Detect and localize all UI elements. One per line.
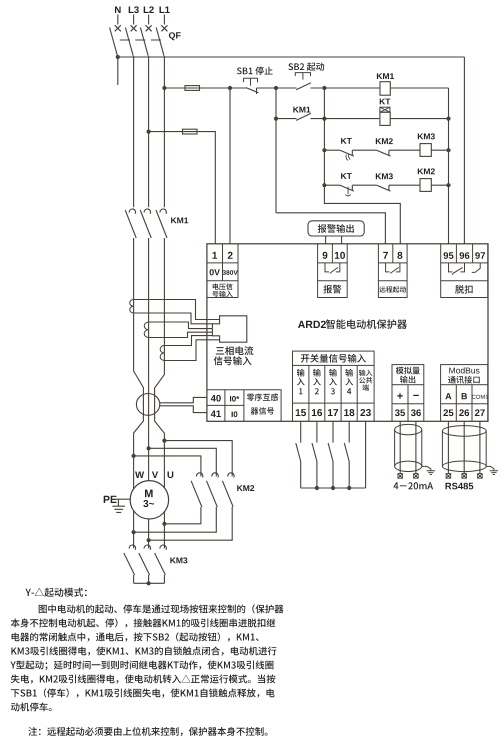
note paragraph line 2 <box>11 618 276 627</box>
contactor coil KM2 <box>420 179 431 192</box>
voltage group outline <box>207 244 238 298</box>
contactor KM3 pole 1 <box>124 545 136 575</box>
label PE <box>104 496 117 503</box>
label V <box>152 472 158 479</box>
wire input 2 <box>316 421 318 442</box>
note paragraph line 4 <box>11 647 276 656</box>
pushbutton SB1 actuator <box>244 78 258 85</box>
wire KM3 pole 2 lower <box>148 575 150 583</box>
label CT line1 <box>216 346 254 355</box>
zero-seq group dividers <box>207 390 244 422</box>
contactor KM2 pole outer <box>222 473 234 507</box>
wire RS485 A <box>447 421 449 473</box>
motor M 3-phase <box>130 481 168 519</box>
wire rung3 b <box>352 149 376 151</box>
wire phase L3 <box>133 56 135 201</box>
trip relay contact 95-96 <box>449 263 465 275</box>
label CT line2 <box>214 356 252 365</box>
label L1 <box>160 7 170 14</box>
fuse FU1 <box>185 86 200 91</box>
label 0V <box>210 269 220 275</box>
wire RS485 B <box>463 421 465 473</box>
wire input 1 <box>300 421 302 442</box>
label alarm <box>323 285 341 294</box>
label KM1 coil <box>377 73 394 79</box>
wire to KM1 aux <box>276 118 297 120</box>
label analog line1 <box>396 367 420 375</box>
label alarm output <box>318 224 354 233</box>
ground RS485 <box>490 471 498 475</box>
remote relay contact <box>386 263 400 274</box>
node A <box>274 86 278 90</box>
label 输入1 char 入 <box>297 378 305 385</box>
wire node A rail to terminal 7 <box>276 213 385 244</box>
supply stub N <box>117 15 119 25</box>
analog pin − <box>413 395 419 396</box>
label 4-20mA <box>394 482 434 489</box>
modbus pin COM <box>472 395 488 399</box>
label analog line2 <box>400 376 415 384</box>
current transformer CT3 <box>160 346 164 361</box>
switch input column 2 <box>324 365 326 421</box>
supply stub L3 <box>133 15 135 25</box>
note paragraph line 1 <box>39 604 284 613</box>
junction KM1-aux tap <box>274 117 278 121</box>
wire L2 voltage feed <box>149 132 216 244</box>
zero sequence transformer <box>136 394 159 416</box>
breaker QF pole L1 <box>156 28 164 56</box>
trip pin 96 <box>460 252 470 259</box>
label 380V <box>223 270 238 275</box>
junction L1 tap <box>162 86 166 90</box>
label 输入3 char 3 <box>331 388 335 394</box>
label 输入2 char 输 <box>313 369 321 377</box>
wire alarm to terminal 10 <box>341 236 343 244</box>
wire rung3 c <box>389 149 420 151</box>
CT3 wire b <box>164 340 219 361</box>
wire node A down <box>275 88 277 213</box>
junction rung3 right <box>446 148 450 152</box>
label RS485 <box>446 483 474 490</box>
wire KM2 inner loop <box>134 456 201 524</box>
switch input pin 16 <box>312 409 322 416</box>
analog pin + <box>397 393 403 399</box>
contact KM3 NC <box>377 185 391 191</box>
ground RS485 lead <box>486 466 494 470</box>
ferrite 4-20mA bottom <box>395 461 422 471</box>
wire phase L1 <box>163 56 165 201</box>
label common line1 <box>359 370 372 377</box>
junction terminal-2 tap <box>228 86 232 90</box>
pin 41 <box>211 411 221 418</box>
wire KM3 pole 3 lower <box>163 575 165 583</box>
wire right rail <box>448 88 450 244</box>
wire neutral bus <box>118 56 465 58</box>
contactor coil KM3 <box>420 144 431 157</box>
pin I0* <box>230 396 239 402</box>
label voltage signal line1 <box>213 283 233 290</box>
label common line2 <box>359 377 372 383</box>
pushbutton SB1 contact <box>246 88 258 94</box>
ferrite 4-20mA sides <box>395 430 422 467</box>
wire PE <box>115 498 130 500</box>
wire analog − <box>415 421 417 473</box>
fuse FU2 <box>183 129 198 134</box>
switch input contact 3 <box>328 443 333 488</box>
label 输入1 char 输 <box>297 369 305 377</box>
label W <box>135 472 144 479</box>
lug RS485 B <box>462 474 467 479</box>
analog output header box <box>392 365 424 385</box>
CT1 wire a <box>134 300 220 320</box>
voltage pin 1 <box>213 252 218 259</box>
breaker QF pole L2 <box>140 28 148 56</box>
label 输入2 char 入 <box>313 378 321 385</box>
wire rung4 a <box>324 184 340 186</box>
ground PE <box>112 499 125 512</box>
label 输入2 char 2 <box>315 388 319 394</box>
note heading <box>26 588 87 597</box>
switch input contact 2 <box>312 443 317 488</box>
alarm pin 9 <box>323 252 328 259</box>
wire KT coil to right rail <box>390 118 448 120</box>
lug analog − <box>414 474 419 479</box>
label voltage signal line2 <box>212 291 232 298</box>
junction W-KM2 <box>132 454 136 458</box>
wire alarm to terminal 9 <box>325 236 327 244</box>
switch input row line <box>293 402 375 404</box>
remote group divider <box>378 244 407 281</box>
label comm interface <box>448 376 480 384</box>
label protector title <box>326 319 407 329</box>
trip pin 95 <box>444 252 454 259</box>
contactor KM3 pole 3 <box>155 545 167 575</box>
zero-seq group outline <box>207 390 281 422</box>
label KM1 aux <box>293 107 310 113</box>
wire star bus <box>134 582 165 584</box>
contactor KM3 pole 2 <box>139 545 151 575</box>
ground 4-20mA <box>427 471 435 475</box>
label 输入4 char 输 <box>345 369 353 377</box>
label KM3 <box>170 557 187 563</box>
note paragraph line 3 <box>12 632 259 641</box>
label ModBus <box>449 367 479 373</box>
switch input contact 1 <box>296 443 301 488</box>
label remote start <box>379 286 406 292</box>
current transformer CT1 <box>130 300 134 314</box>
contactor KM2 pole inner <box>191 473 203 507</box>
junction rung3 left <box>322 148 326 152</box>
switch input pin 15 <box>296 409 306 416</box>
label SB1 stop <box>237 67 273 75</box>
junction U-KM2 <box>162 439 166 443</box>
voltage group divider <box>222 244 224 281</box>
wire U phase <box>155 238 165 548</box>
pin I0 <box>232 411 238 417</box>
ferrite 4-20mA top <box>395 424 422 434</box>
junction KT rung <box>322 117 326 121</box>
junction U-delta <box>162 522 166 526</box>
switch input column 3 <box>340 365 342 421</box>
wire to terminal 2 <box>229 88 231 244</box>
label 输入3 char 入 <box>329 378 337 385</box>
junction rung4 right <box>446 183 450 187</box>
remote pin 7 <box>383 252 388 259</box>
wire KM3 pole 1 lower <box>133 575 135 583</box>
switch input pin 23 <box>360 409 371 416</box>
ferrite RS485 sides <box>442 431 486 466</box>
note paragraph line 8 <box>11 703 52 712</box>
label KT coil <box>380 99 391 105</box>
wire SB1 to node A <box>257 87 297 89</box>
label L3 <box>129 6 139 13</box>
label KT rung4 <box>341 173 352 179</box>
label motor 3ph <box>143 500 154 507</box>
voltage pin 2 <box>228 252 233 259</box>
junction V-KM2 <box>147 446 151 450</box>
timer coil KT upper box <box>380 107 390 112</box>
contact KT delayed NO <box>340 185 354 191</box>
CT connector plug <box>212 316 246 342</box>
wire KM2 middle loop <box>134 448 217 532</box>
label ARD2 <box>298 321 326 328</box>
wire KM1 coil to right rail <box>390 87 448 89</box>
protector ARD2 outline <box>207 244 488 421</box>
supply stub L2 <box>148 15 150 25</box>
pin 40 <box>211 395 221 402</box>
wire mid rail <box>324 88 400 244</box>
label KM2 rung3 <box>376 138 393 144</box>
CT3 wire a <box>164 336 212 346</box>
wire ZCT to 40 <box>160 397 207 402</box>
label L2 <box>144 6 154 13</box>
modbus header box <box>441 365 488 385</box>
modbus pin A <box>445 393 451 399</box>
label trip <box>455 285 472 294</box>
contact KM2 NC <box>377 150 391 156</box>
terminal x-mark L1 <box>161 25 167 31</box>
ground 4-20mA lead <box>422 466 431 470</box>
label U <box>168 472 174 479</box>
wire input 3 <box>332 421 334 442</box>
wire terminal-96 feeder <box>463 57 465 244</box>
wire KM2 outer loop <box>149 441 233 541</box>
contactor KM1 main pole 2 <box>140 201 151 238</box>
wire rung4 c <box>389 184 420 186</box>
modbus pin 25 <box>443 409 453 416</box>
supply stub L1 <box>163 15 165 25</box>
analog pin 35 <box>395 409 405 416</box>
switch input header box <box>293 351 375 365</box>
label zero-seq line2 <box>251 407 274 415</box>
wire input common bus <box>301 421 366 488</box>
note paragraph line 5 <box>11 661 274 671</box>
pushbutton SB2 actuator <box>295 73 310 80</box>
contactor KM1 main pole 1 <box>125 201 136 238</box>
trip pin 97 <box>475 252 485 259</box>
trip group outline <box>441 244 488 298</box>
wire rung3 d <box>431 149 448 151</box>
modbus pin B <box>462 393 467 399</box>
alarm relay contact <box>325 263 340 274</box>
wire V phase <box>148 238 150 548</box>
label KM2 coil <box>418 168 435 174</box>
wire rung3 a <box>324 149 340 151</box>
node B <box>322 86 326 90</box>
junction W-delta <box>132 530 136 534</box>
alarm group divider <box>318 244 348 281</box>
junction right rail KT <box>446 117 450 121</box>
remote group outline <box>378 244 407 298</box>
wire L1 control feed <box>164 87 246 89</box>
switch input column 1 <box>308 365 310 421</box>
label SB2 start <box>288 62 324 71</box>
label KM1 main <box>171 218 188 224</box>
switch input pin 17 <box>328 409 338 416</box>
alarm output box <box>308 221 364 236</box>
label 输入1 char 1 <box>299 388 302 394</box>
modbus group lines <box>441 385 488 422</box>
label KM3 coil <box>418 133 435 139</box>
switch input pin 18 <box>344 409 354 416</box>
junction input bus 3 <box>347 486 351 490</box>
CT1 wire b <box>134 313 213 324</box>
junction input bus 1 <box>315 486 319 490</box>
ferrite RS485 top <box>442 426 486 437</box>
contact KT delay symbol 2 <box>345 187 350 196</box>
label N <box>115 7 121 14</box>
ferrite RS485 bottom <box>442 461 486 472</box>
wire analog + <box>399 421 401 473</box>
lug RS485 COM <box>478 474 483 479</box>
trip group divider <box>441 244 488 281</box>
junction input bus 2 <box>331 486 335 490</box>
label KM2 <box>237 485 254 491</box>
label switch input header <box>301 354 366 363</box>
switch input contact 4 <box>344 443 349 488</box>
label 输入4 char 4 <box>347 388 351 394</box>
lug analog + <box>398 474 403 479</box>
wire input 4 <box>348 421 350 442</box>
breaker QF pole N <box>110 28 118 56</box>
contactor coil KM1 <box>380 82 390 96</box>
wire N stub down <box>117 57 119 85</box>
wire rung4 b <box>352 184 376 186</box>
label common line3 <box>363 384 369 390</box>
label 输入4 char 入 <box>345 378 353 385</box>
remote pin 8 <box>397 252 402 259</box>
switch input column 4 <box>356 365 358 421</box>
note paragraph line 7 <box>11 688 275 697</box>
wire RS485 COM <box>479 421 481 473</box>
label 输入3 char 输 <box>329 369 337 377</box>
current transformer CT2 <box>144 322 148 338</box>
label motor M <box>145 490 153 498</box>
wire W to KM3 <box>133 547 135 549</box>
note paragraph line 6 <box>11 675 276 684</box>
contactor KM2 pole middle <box>207 473 219 507</box>
terminal x-mark L2 <box>146 25 152 31</box>
contact KM1 auxiliary <box>296 113 311 120</box>
wire SB2 to node B <box>311 87 381 89</box>
junction V-delta <box>147 538 151 542</box>
timer coil KT body <box>380 112 390 125</box>
wire rung4 d <box>431 184 448 186</box>
alarm pin 10 <box>335 252 345 259</box>
junction N-bus <box>116 55 120 59</box>
contact KT delayed NC <box>340 150 354 156</box>
CT2 wire a <box>149 322 213 329</box>
label QF <box>169 32 181 40</box>
wire KM1 aux to rail <box>311 118 380 120</box>
modbus pin 26 <box>459 409 469 416</box>
label KM3 rung4 <box>376 173 393 179</box>
CT2 wire b <box>149 332 213 337</box>
pushbutton SB2 contact <box>296 83 311 90</box>
alarm group outline <box>318 244 348 298</box>
junction rung4 left <box>322 183 326 187</box>
terminal x-mark L3 <box>131 25 137 31</box>
wire W phase <box>134 238 144 548</box>
terminal x-mark N <box>115 25 121 31</box>
analog group lines <box>392 385 424 422</box>
trip relay contact 97 <box>472 263 480 273</box>
note remark <box>28 727 267 736</box>
breaker QF linkage <box>120 39 161 41</box>
timer coil KT cross <box>380 107 390 112</box>
label zero-seq line1 <box>247 394 279 402</box>
switch input column 0 <box>292 365 294 421</box>
switch input column 5 <box>373 365 375 421</box>
lug RS485 A <box>446 474 451 479</box>
wire phase L2 <box>148 56 150 201</box>
breaker QF pole L3 <box>125 28 133 56</box>
wire ZCT to 41 <box>160 406 207 413</box>
modbus pin 27 <box>475 409 485 416</box>
label KT rung3 <box>341 138 352 144</box>
contactor KM1 main pole 3 <box>156 201 167 238</box>
contact KT delay symbol <box>346 154 350 161</box>
junction star point <box>147 581 151 585</box>
junction L2 tap <box>147 130 151 134</box>
analog pin 36 <box>411 409 421 416</box>
